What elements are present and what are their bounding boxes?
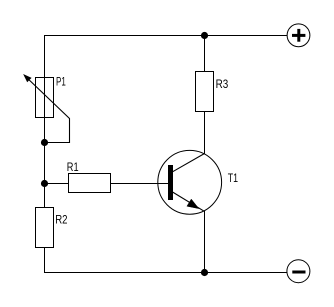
wire R1 to base [111, 183, 169, 185]
P1 wiper arrowhead [24, 75, 31, 82]
svg-text:T1: T1 [228, 171, 239, 185]
wire R3 to collector [204, 112, 206, 154]
svg-text:R2: R2 [55, 213, 68, 227]
svg-text:R3: R3 [216, 77, 229, 91]
terminal - supply [287, 260, 310, 283]
svg-text:R1: R1 [67, 160, 79, 174]
wire R3 top branch [204, 36, 206, 72]
transistor T1 emitter lead [173, 192, 205, 211]
resistor R2 body [36, 208, 54, 248]
wire P1 wiper [25, 76, 70, 143]
junction node R1/R2 [41, 180, 48, 187]
junction node top (R3 / + rail) [201, 32, 208, 39]
transistor T1 circle [158, 150, 222, 214]
junction node P1 wiper [41, 139, 48, 146]
potentiometer P1 body [36, 78, 54, 118]
transistor T1 collector lead [173, 154, 205, 172]
wire top rail [44, 35, 288, 37]
junction node emitter / - rail [201, 269, 208, 276]
svg-text:P1: P1 [56, 75, 66, 89]
wire rail to R1 [45, 183, 69, 185]
wire bottom rail [44, 272, 288, 274]
wire emitter to bottom rail [204, 211, 206, 273]
transistor T1 emitter arrowhead [187, 199, 199, 209]
wire left rail [44, 36, 46, 273]
resistor R1 body [69, 174, 111, 193]
terminal + supply [287, 24, 310, 47]
transistor T1 base bar [168, 165, 173, 200]
resistor R3 body [196, 72, 214, 112]
